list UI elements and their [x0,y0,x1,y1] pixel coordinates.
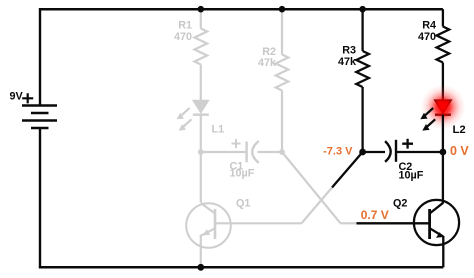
svg-text:-7.3 V: -7.3 V [323,146,353,158]
wire bottom rail [39,266,444,269]
wire R3 to node (black) [361,87,363,152]
junction node R1/top rail [198,6,205,13]
junction node C1/R2/diagonal (grey) [279,149,285,155]
svg-text:R3: R3 [342,45,356,57]
svg-text:10µF: 10µF [399,170,424,182]
wire R4 to L2 (black) [442,63,444,101]
capacitor C2 (black, 10uF) [363,139,443,182]
capacitor C1 (grey, 10uF) [201,139,282,180]
transistor Q2 (black NPN) [393,197,459,245]
wire cross-couple lower diagonal (grey) [302,188,333,224]
junction node Q1 emitter/bottom rail [197,264,204,271]
svg-text:L1: L1 [212,124,225,136]
wire cross-couple C1 node to Q2 base (grey diagonal) [282,152,341,223]
wire Q2 base horizontal (grey then black) [341,222,357,224]
resistor R3 (black, 47k) [338,9,369,87]
junction node L1/C1 (grey) [198,149,204,155]
wire R2 to node (grey) [281,91,283,153]
wire cross-couple C2 node to Q1 base (black upper diagonal) [332,152,363,188]
svg-text:10µF: 10µF [230,168,255,180]
LED L2 (red, lit) [420,85,465,137]
junction node R3/C2 (-7.3V node) [359,149,366,156]
resistor R2 (grey, 47k) [258,9,288,90]
svg-text:Q1: Q1 [236,197,250,209]
wire left rail (battery top lead) [39,8,41,106]
svg-text:470: 470 [418,31,436,43]
svg-text:0 V: 0 V [450,144,469,158]
wire L1 to node (grey) [200,115,202,152]
wire Q1 base horizontal (grey) [215,222,302,224]
junction node L2/C2/Q2 collector (0V node) [440,149,447,156]
LED L1 (grey) [177,100,225,135]
resistor R4 (black, 470) [418,9,449,62]
wire battery bottom lead / left rail [39,128,41,267]
svg-text:0.7 V: 0.7 V [361,208,389,222]
resistor R1 (grey, 470) [174,9,207,64]
battery B1 9V [10,91,58,129]
svg-text:R1: R1 [178,19,192,31]
junction node R3/top rail [359,6,366,13]
wire L2 to node (black) [442,115,444,152]
wire R1 to L1 (grey) [200,65,202,101]
wire Q2 collector (black) [442,152,444,203]
svg-text:L2: L2 [453,124,466,136]
svg-text:9V: 9V [10,91,24,103]
transistor Q1 (grey NPN, mirrored) [186,197,250,247]
wire top rail [40,8,443,11]
wire Q1 collector (grey) [200,152,202,203]
svg-text:Q2: Q2 [393,197,407,209]
wire Q1 emitter (grey) [200,235,202,267]
svg-text:470: 470 [174,31,192,43]
wire Q2 emitter (black) [442,236,444,267]
svg-text:47k: 47k [338,56,357,68]
svg-text:R4: R4 [422,20,436,32]
junction node R2/top rail [279,6,286,13]
svg-text:47k: 47k [258,57,277,69]
